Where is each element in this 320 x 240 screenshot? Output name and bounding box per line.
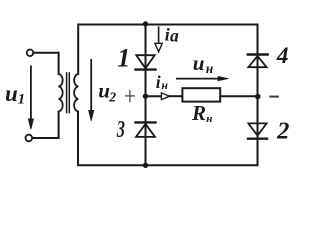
svg-text:R: R	[191, 101, 206, 125]
svg-text:1: 1	[117, 44, 130, 73]
svg-text:u: u	[5, 81, 18, 106]
svg-text:2: 2	[276, 118, 289, 145]
svg-text:4: 4	[276, 43, 289, 69]
svg-text:н: н	[206, 61, 214, 76]
svg-text:3: 3	[116, 117, 125, 143]
svg-text:н: н	[162, 80, 169, 92]
svg-text:1: 1	[18, 91, 26, 107]
svg-text:2: 2	[108, 89, 116, 104]
svg-text:н: н	[206, 113, 212, 125]
svg-text:u: u	[193, 51, 205, 75]
svg-text:a: a	[170, 26, 179, 46]
svg-text:i: i	[156, 72, 161, 92]
